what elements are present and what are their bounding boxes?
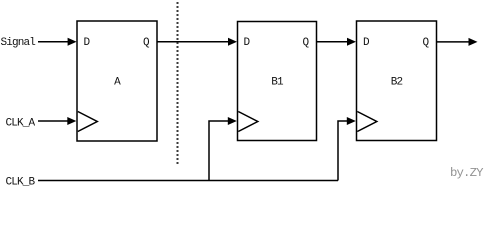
wire CLK_B riser to B2 clock pin <box>338 117 356 181</box>
svg-text:CLK_A: CLK_A <box>6 118 36 130</box>
svg-text:D: D <box>84 37 91 49</box>
svg-text:B2: B2 <box>391 77 403 89</box>
wire A.Q to B1.D <box>157 38 237 46</box>
svg-text:Signal: Signal <box>1 37 36 49</box>
svg-text:Q: Q <box>143 37 150 49</box>
wire CLK_B horizontal run <box>38 180 338 182</box>
wire Signal to A.D <box>38 38 77 46</box>
svg-text:A: A <box>114 77 121 89</box>
wire CLK_B riser to B1 clock pin <box>209 117 237 181</box>
svg-text:CLK_B: CLK_B <box>6 176 36 188</box>
svg-text:D: D <box>363 37 370 49</box>
svg-text:by.ZY: by.ZY <box>450 166 484 180</box>
svg-text:Q: Q <box>303 37 310 49</box>
flip-flop A clock triangle <box>78 112 98 132</box>
flip-flop B2 clock triangle <box>357 112 377 132</box>
flip-flop B1 clock triangle <box>238 112 257 132</box>
wire B1.Q to B2.D <box>317 38 357 46</box>
flip-flop B1 body <box>238 22 317 141</box>
clock-domain boundary (dotted separator) <box>177 2 179 164</box>
svg-text:Q: Q <box>423 37 430 49</box>
wire B2.Q to output <box>437 38 478 46</box>
flip-flop B2 body <box>357 21 437 141</box>
wire CLK_A to A clock pin <box>38 117 76 125</box>
svg-text:D: D <box>244 37 251 49</box>
svg-text:B1: B1 <box>271 77 284 89</box>
flip-flop A body <box>77 21 157 141</box>
